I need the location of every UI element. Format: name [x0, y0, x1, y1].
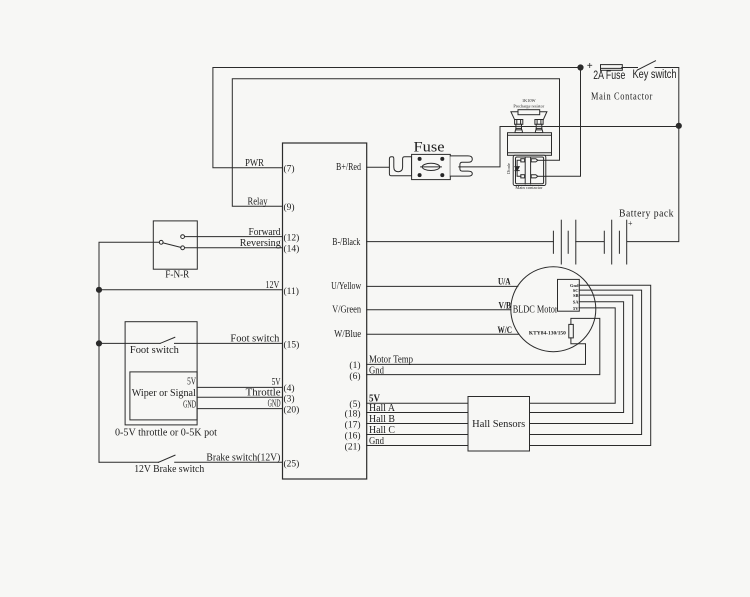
- svg-text:5V: 5V: [573, 306, 579, 311]
- svg-text:BLDC Motor: BLDC Motor: [513, 304, 558, 316]
- wire GND pin 20: [197, 408, 282, 410]
- svg-text:V/Green: V/Green: [332, 305, 361, 316]
- wire Reversing pin 14: [185, 247, 283, 249]
- wire hall box to motor 5V: [530, 308, 616, 403]
- wire B+/Red pin to fuse: [367, 166, 390, 168]
- contactor K1 left terminal bolt: [515, 120, 523, 133]
- svg-text:+: +: [628, 219, 633, 228]
- wire B-/Black to battery negative: [367, 241, 554, 243]
- wire W/Blue phase to motor: [367, 333, 519, 335]
- svg-text:U/A: U/A: [498, 277, 511, 287]
- svg-text:Motor Temp: Motor Temp: [369, 355, 413, 366]
- svg-text:GND: GND: [183, 400, 196, 411]
- svg-text:Hall B: Hall B: [369, 414, 395, 425]
- svg-text:(16): (16): [345, 431, 361, 442]
- wire foot switch pin 15 with lever: [99, 337, 283, 343]
- wire Hall A pin 18 to hall box: [367, 412, 468, 414]
- svg-text:(7): (7): [284, 164, 295, 175]
- fuse F2 ANL fuse left fork terminal: [389, 157, 411, 176]
- svg-text:12V: 12V: [265, 280, 280, 291]
- svg-text:(3): (3): [284, 393, 295, 404]
- svg-text:(1): (1): [349, 360, 360, 371]
- fuse F2 bolt circles: [418, 157, 445, 177]
- wire 5V pin 5 to hall box: [367, 402, 468, 404]
- svg-text:Brake switch(12V): Brake switch(12V): [206, 452, 280, 463]
- wire key switch to right rail: [655, 68, 679, 126]
- svg-text:B+/Red: B+/Red: [336, 162, 361, 173]
- svg-text:SB: SB: [573, 293, 579, 298]
- svg-text:SA: SA: [573, 300, 580, 305]
- svg-text:Main Contactor: Main Contactor: [591, 92, 653, 103]
- fuse F2 center element ellipse: [421, 163, 442, 170]
- wire F-N-R common to left rail: [99, 242, 159, 289]
- svg-text:Throttle: Throttle: [246, 387, 282, 398]
- node 12V junction dot: [96, 287, 101, 292]
- svg-text:U/Yellow: U/Yellow: [331, 281, 362, 292]
- motor M1 hall connector box: [558, 279, 580, 311]
- svg-text:1K10W: 1K10W: [522, 98, 537, 103]
- contactor K1 precharge resistor body: [518, 110, 540, 115]
- contactor K1 main body: [508, 133, 552, 156]
- node foot switch junction dot: [96, 341, 101, 346]
- contactor K1 contact bar: [525, 157, 530, 184]
- wire left rail down: [98, 290, 100, 463]
- svg-text:(6): (6): [349, 371, 360, 382]
- svg-text:Wiper or Signal: Wiper or Signal: [132, 388, 196, 399]
- svg-text:2A Fuse: 2A Fuse: [593, 70, 625, 82]
- wire Hall C pin 16 to hall box: [367, 434, 468, 436]
- svg-text:0-5V throttle or 0-5K pot: 0-5V throttle or 0-5K pot: [115, 427, 217, 438]
- svg-text:Foot switch: Foot switch: [230, 333, 279, 344]
- wire Forward pin 12: [185, 236, 283, 238]
- wire PWR pin 7 outer loop to B+ junction: [213, 68, 581, 168]
- svg-text:Foot switch: Foot switch: [130, 345, 179, 356]
- svg-text:KTY84-130/150: KTY84-130/150: [529, 330, 566, 336]
- svg-text:Hall C: Hall C: [369, 425, 395, 436]
- svg-text:(12): (12): [284, 233, 300, 244]
- svg-text:PWR: PWR: [245, 158, 264, 169]
- contactor K1 lower housing: [513, 155, 546, 185]
- controller box U1: [283, 143, 367, 479]
- svg-text:Reversing: Reversing: [240, 238, 281, 249]
- svg-text:(5): (5): [349, 399, 360, 410]
- svg-text:Hall A: Hall A: [369, 403, 396, 414]
- wire 2A fuse to key switch: [622, 67, 638, 69]
- svg-text:Hall Sensors: Hall Sensors: [472, 419, 525, 430]
- svg-text:(21): (21): [345, 442, 361, 453]
- wire Relay pin 9 inner loop to contactor coil: [232, 79, 559, 207]
- wire hall Gnd pin 21 to hall box: [367, 445, 468, 447]
- thermistor RT1 KTY84 sensor: [569, 324, 574, 338]
- svg-text:(20): (20): [284, 405, 300, 416]
- hall sensors box: [468, 397, 530, 452]
- svg-text:GND: GND: [268, 399, 281, 410]
- diode D1 inside contactor: [515, 160, 521, 176]
- wire B+ junction drop to contactor coil lower pin: [546, 68, 581, 177]
- fuse F1 2A fuse body: [601, 65, 623, 71]
- wire right rail down to battery positive: [627, 126, 679, 242]
- wire U/Yellow phase to motor: [367, 285, 518, 287]
- contactor K1 right terminal bolt: [535, 120, 543, 133]
- svg-text:(4): (4): [284, 383, 295, 394]
- svg-text:Forward: Forward: [249, 227, 281, 238]
- wire hall box to motor SA: [530, 302, 624, 413]
- svg-text:F-N-R: F-N-R: [165, 269, 189, 280]
- wire Hall B pin 17 to hall box: [367, 423, 468, 425]
- throttle box wiper or signal: [130, 372, 197, 420]
- svg-text:(9): (9): [284, 202, 295, 213]
- wire 12V pin 11: [99, 289, 283, 291]
- wire hall box to motor SB: [530, 295, 633, 423]
- foot switch box: [125, 322, 197, 425]
- node B+ junction dot: [578, 65, 583, 70]
- wire hall box to motor SC: [530, 290, 642, 434]
- wire fuse output up to contactor rail: [459, 127, 500, 167]
- wire motor temp gnd pin 6: [367, 318, 600, 374]
- wire V/Green phase to motor: [367, 309, 511, 311]
- fuse F2 ANL fuse body: [412, 154, 451, 179]
- svg-text:(18): (18): [345, 409, 361, 420]
- svg-text:(11): (11): [284, 286, 299, 297]
- svg-text:(15): (15): [284, 339, 300, 350]
- motor M1 BLDC motor circle: [511, 267, 596, 352]
- wire 5V pin 4: [197, 386, 282, 388]
- svg-text:(17): (17): [345, 420, 361, 431]
- switch S2 contacts and lever: [159, 235, 184, 250]
- battery BT1 cell plates: [553, 220, 626, 264]
- svg-text:Key switch: Key switch: [633, 69, 677, 81]
- wire brake switch pin 25 with lever: [99, 455, 283, 462]
- svg-text:Relay: Relay: [248, 197, 268, 208]
- switch S2 F-N-R box: [153, 221, 197, 269]
- svg-text:(25): (25): [284, 458, 300, 469]
- svg-text:Battery pack: Battery pack: [619, 209, 674, 220]
- svg-text:Precharge resistor: Precharge resistor: [513, 103, 544, 108]
- svg-text:Main contactor: Main contactor: [515, 185, 543, 190]
- svg-text:Gnd: Gnd: [369, 436, 384, 447]
- svg-text:Fuse: Fuse: [414, 140, 445, 156]
- svg-text:5V: 5V: [187, 376, 197, 387]
- svg-text:+: +: [587, 61, 593, 72]
- node main junction dot right rail: [676, 123, 681, 128]
- switch S1 key switch lever: [638, 61, 656, 70]
- fuse F2 ANL fuse right fork terminal: [450, 156, 472, 176]
- wire contactor B+ rail: [500, 126, 679, 128]
- contactor K1 upper contact pins: [521, 159, 546, 162]
- wire Throttle pin 3: [197, 396, 282, 398]
- wire hall box to motor Gnd: [530, 285, 651, 445]
- contactor K1 precharge resistor trapezoid: [511, 112, 547, 120]
- svg-text:B-/Black: B-/Black: [332, 237, 360, 248]
- svg-text:W/C: W/C: [498, 325, 513, 335]
- svg-text:W/Blue: W/Blue: [334, 329, 361, 340]
- svg-text:Diode: Diode: [506, 163, 511, 174]
- svg-text:(14): (14): [284, 244, 300, 255]
- wire motor temp pin 1: [367, 338, 586, 365]
- svg-text:Gnd: Gnd: [369, 366, 384, 377]
- svg-text:12V Brake switch: 12V Brake switch: [134, 464, 205, 475]
- contactor K1 lower contact pins: [521, 175, 546, 178]
- svg-text:V/B: V/B: [499, 300, 512, 310]
